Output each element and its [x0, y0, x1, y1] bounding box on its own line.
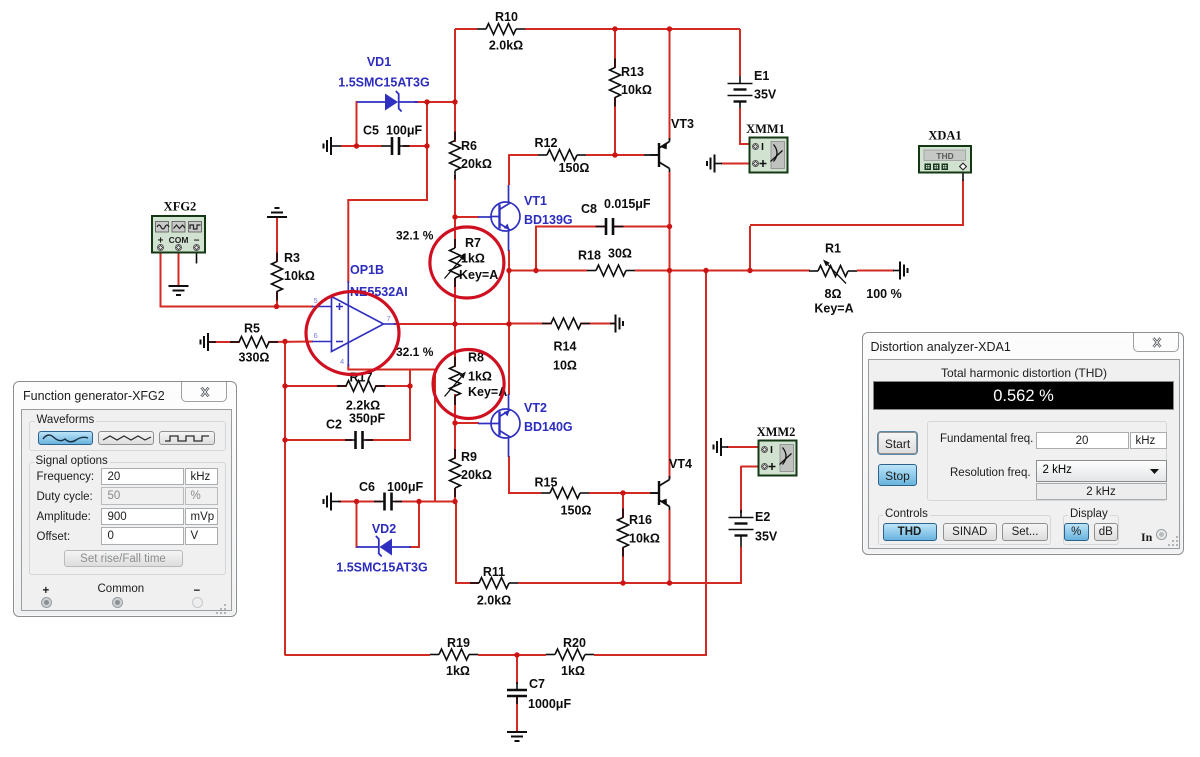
capacitor C2 [326, 412, 385, 450]
wire C6 left lead [338, 501, 381, 503]
XDA controls group [878, 515, 1051, 545]
resistor R16 [618, 509, 660, 557]
instrument XMM2 icon [757, 425, 797, 476]
FG set rise/fall button (disabled) [64, 550, 183, 568]
ground (above R3) [267, 208, 287, 217]
svg-text:4: 4 [340, 357, 344, 366]
instrument XMM1 icon [746, 122, 787, 173]
svg-text:30Ω: 30Ω [608, 247, 632, 261]
diode VD2 (TVS 1.5SMC15AT3G) [336, 522, 427, 575]
wire C8 left horizontal [536, 226, 605, 228]
wire VT2 collector down [508, 456, 510, 494]
XDA freq group [927, 421, 1167, 501]
wire R11 row right [518, 582, 741, 584]
svg-text:1.5SMC15AT3G: 1.5SMC15AT3G [336, 561, 427, 575]
XDA dB button [1094, 523, 1119, 541]
resistor R6 [450, 132, 492, 180]
svg-text:R9: R9 [461, 450, 477, 464]
svg-text:VT2: VT2 [524, 401, 547, 415]
wire op-amp pin8 vertical [347, 200, 349, 283]
wire VT3 emitter vertical to VT4 collector [669, 172, 671, 479]
svg-text:35V: 35V [755, 530, 778, 544]
wire R9 bottom to C6 node [454, 488, 456, 502]
svg-text:20kΩ: 20kΩ [461, 468, 492, 482]
annotation circle around R7 [430, 227, 504, 298]
wire R17 right vertical [409, 370, 411, 442]
svg-text:1kΩ: 1kΩ [561, 664, 585, 678]
wire R11 row to E2 corner [670, 582, 742, 584]
FG triangle button [98, 431, 154, 446]
diode VD1 (TVS 1.5SMC15AT3G) [338, 55, 429, 112]
resistor R17 [337, 371, 385, 413]
wire main output row left of R18 [509, 270, 587, 272]
svg-text:20kΩ: 20kΩ [461, 157, 492, 171]
svg-text:E2: E2 [755, 510, 770, 524]
wire VT1 base node to R7 top [454, 217, 456, 248]
annotation circle around op-amp [306, 292, 399, 375]
battery E2 35V [729, 510, 778, 547]
resistor R20 [546, 636, 594, 678]
svg-text:E1: E1 [754, 69, 769, 83]
resistor R9 [450, 449, 492, 497]
svg-text:R18: R18 [578, 249, 601, 263]
wire R12 row left [509, 154, 538, 156]
wire pin8 jog horizontal [347, 199, 428, 201]
ground (XMM1) [707, 155, 722, 173]
FG offset row [37, 531, 71, 543]
instrument XFG2 icon [152, 200, 205, 253]
wire C6 node down to R11 corner [455, 502, 457, 584]
svg-text:Key=A: Key=A [814, 302, 853, 316]
wire R8 bottom to VT2 base node [454, 394, 456, 424]
wire R12 row right / VT3 base [586, 154, 644, 156]
FG content panel [21, 409, 232, 612]
XDA title [871, 340, 1011, 354]
svg-text:R15: R15 [535, 476, 558, 490]
wire output node down to VT2 emitter [508, 324, 510, 395]
svg-text:6: 6 [314, 331, 318, 340]
wire E1 bottom to XMM1 [740, 108, 752, 145]
wire +35V top rail left of R10 [455, 28, 477, 30]
resistor R18 [578, 247, 635, 277]
wire VT2 collector row left of R15 [509, 492, 541, 494]
wire C5 row ground to branch [341, 145, 357, 147]
wire bottom row between R19 R20 [478, 654, 546, 656]
ground (C5 input) [324, 137, 342, 155]
transistor VT1 (BD139G) [478, 185, 573, 251]
FG close button [181, 382, 227, 402]
svg-text:2.0kΩ: 2.0kΩ [489, 39, 523, 53]
svg-text:35V: 35V [754, 88, 777, 102]
wire XMM2 ground link [727, 446, 761, 448]
wire XFG2 plus lead [160, 251, 162, 308]
XDA THD button [883, 523, 937, 541]
wire XFG2 minus stub [196, 251, 198, 264]
wire R12 corner vertical to VT1 collector [508, 154, 510, 185]
wire XDA1 lead stub [962, 169, 964, 181]
svg-text:VT1: VT1 [524, 194, 547, 208]
svg-text:XFG2: XFG2 [164, 200, 197, 214]
ground (R5 input) [201, 333, 217, 351]
wire XFG2 com lead [178, 251, 180, 286]
annotation label 32.1 % (R8) [396, 345, 434, 359]
XDA resize grip [1167, 535, 1181, 549]
battery E1 35V [728, 69, 777, 108]
wire left feedback vertical [284, 341, 286, 656]
svg-text:100μF: 100μF [386, 124, 423, 138]
transistor VT4 [650, 457, 692, 510]
wire R5 left lead [208, 341, 240, 343]
wire R3 top lead [276, 217, 278, 262]
XDA resolution readout [1036, 483, 1167, 500]
XDA black readout [873, 381, 1174, 410]
ground (XMM2) [714, 438, 729, 456]
wire R14 left lead [509, 323, 552, 325]
resistor R10 [477, 10, 525, 53]
wire bottom row right of R20 [594, 654, 707, 656]
svg-text:COM: COM [169, 235, 189, 245]
wire VD2 right lead [409, 546, 420, 548]
svg-text:R7: R7 [465, 236, 481, 250]
svg-text:R19: R19 [447, 636, 470, 650]
wire XDA1 jog horizontal [750, 224, 964, 226]
wire left rail down from top to VD1 node [454, 29, 456, 103]
resistor R3 [272, 251, 315, 301]
wire R5 to inverting input [268, 341, 313, 344]
svg-text:1000μF: 1000μF [528, 697, 571, 711]
transistor VT2 (BD140G) [478, 394, 573, 457]
wire emitter node to output node [508, 271, 510, 326]
svg-text:C2: C2 [326, 418, 342, 432]
wire C2 left lead [285, 439, 352, 441]
wire C8 vertical drop [535, 226, 537, 272]
svg-text:R11: R11 [483, 565, 505, 579]
capacitor C6 [359, 480, 424, 511]
wire C7 stem [516, 655, 518, 684]
FG minus terminal (inactive) [194, 585, 201, 597]
wire VD1 row [414, 101, 456, 103]
wire pin4 jog horizontal [348, 369, 435, 371]
wire R6 top lead [454, 102, 456, 142]
potentiometer R7 [445, 236, 499, 287]
svg-text:7: 7 [387, 314, 391, 323]
svg-text:150Ω: 150Ω [559, 161, 590, 175]
XDA percent button [1064, 523, 1089, 541]
resistor R19 [430, 636, 478, 678]
wire XMM2 plus link [741, 466, 761, 468]
wire output row R8 top [454, 324, 456, 367]
XDA In terminal [1141, 530, 1152, 545]
ground (XFG2 COM) [169, 286, 189, 295]
capacitor C7 [507, 677, 571, 711]
instrument XDA1 icon [919, 129, 971, 173]
wire VT2 collector row right of R15 [589, 492, 650, 494]
wire C6 right lead [395, 501, 456, 503]
XDA start button [878, 432, 917, 454]
svg-text:32.1 %: 32.1 % [396, 229, 434, 243]
wire VT4 base lead [623, 492, 650, 494]
FG amplitude row [37, 511, 91, 523]
svg-text:C8: C8 [581, 202, 597, 216]
svg-text:100 %: 100 % [866, 287, 901, 301]
wire pin4 vertical [347, 364, 349, 371]
wire R14 right lead [580, 323, 616, 325]
wire VD2 left vertical [356, 501, 358, 548]
FG sine button (selected) [38, 431, 93, 446]
svg-text:10Ω: 10Ω [553, 359, 577, 373]
wire VT2 base red part [455, 422, 479, 424]
svg-text:10kΩ: 10kΩ [284, 269, 315, 283]
svg-text:2.2kΩ: 2.2kΩ [346, 399, 380, 413]
XDA THD caption [869, 366, 1179, 380]
wire VT1 base red part [455, 216, 479, 218]
svg-text:C6: C6 [359, 480, 375, 494]
svg-text:0.015μF: 0.015μF [604, 197, 651, 211]
svg-text:R10: R10 [495, 10, 518, 24]
XDA content panel [868, 359, 1180, 549]
resistor R14 [542, 318, 590, 373]
wire bottom row left of R19 [285, 654, 430, 656]
wire VT1 emitter red part [508, 250, 510, 272]
wire C2 right lead [366, 439, 410, 441]
wire XMM2 to E2 vertical [740, 466, 742, 513]
wire R16 top lead [622, 493, 624, 518]
wire R3 bottom lead [276, 291, 278, 308]
wire R17 right lead [375, 385, 410, 387]
svg-text:C5: C5 [363, 124, 379, 138]
svg-text:2.0kΩ: 2.0kΩ [477, 594, 511, 608]
wire VT4 emitter vertical [669, 510, 671, 584]
dialog: Distortion analyzer-XDA1 [862, 332, 1184, 555]
wire E2 bottom vertical [740, 547, 742, 584]
svg-text:BD140G: BD140G [524, 420, 573, 434]
resistor R12 [535, 136, 590, 175]
wire XMM1 ground link [721, 163, 752, 165]
FG plus terminal [43, 585, 50, 597]
XDA close button [1133, 333, 1179, 352]
wire R1 left lead [750, 270, 810, 272]
FG signal options group [29, 462, 226, 575]
wire C5 row right [403, 145, 428, 147]
wire VT3 collector vertical [669, 29, 671, 140]
FG waveforms group [29, 421, 226, 451]
transistor VT3 [644, 117, 694, 172]
svg-text:R1: R1 [825, 242, 841, 256]
XDA Set button [1002, 523, 1048, 541]
wire XDA1 lead [962, 180, 964, 226]
svg-text:R20: R20 [563, 636, 586, 650]
wire output to bottom-loop vertical [705, 271, 707, 656]
svg-text:32.1 %: 32.1 % [396, 345, 434, 359]
svg-text:C7: C7 [529, 677, 545, 691]
svg-text:R6: R6 [461, 139, 477, 153]
wire R7 bottom to output row [454, 278, 456, 325]
wire VT2 base node to R9 top [454, 423, 456, 459]
FG duty cycle row [37, 491, 93, 503]
wire pin4 drop to C6 row [434, 370, 436, 503]
svg-text:XMM2: XMM2 [757, 425, 796, 439]
svg-text:1kΩ: 1kΩ [468, 370, 492, 384]
svg-text:R13: R13 [621, 65, 644, 79]
wire R1 right lead [857, 270, 894, 272]
svg-text:R5: R5 [244, 322, 260, 336]
resistor R13 [610, 59, 652, 107]
wire R11 row left [455, 582, 470, 584]
wire C7 bottom lead [516, 697, 518, 732]
wire R6 lead bottom to VT1 base node [454, 175, 456, 218]
svg-text:350pF: 350pF [349, 412, 385, 426]
svg-text:150Ω: 150Ω [561, 504, 592, 518]
wire main output row right of R18 [635, 270, 804, 272]
svg-text:1kΩ: 1kΩ [446, 664, 470, 678]
svg-text:XMM1: XMM1 [746, 122, 785, 136]
wire output row to emitter node [455, 323, 510, 325]
ground (C6 input) [324, 493, 342, 511]
wire C8 right horizontal [614, 226, 670, 228]
svg-text:THD: THD [936, 151, 953, 161]
potentiometer R8 [445, 351, 508, 406]
op-amp U1 OP1B NE5532AI [312, 263, 408, 367]
svg-text:5: 5 [314, 296, 318, 305]
svg-text:R16: R16 [629, 513, 652, 527]
wire op-amp output lead [394, 323, 456, 325]
wire R17 left lead [285, 385, 347, 387]
annotation label 32.1 % (R7) [396, 229, 434, 243]
wire XDA1 tap vertical [749, 226, 751, 271]
svg-text:OP1B: OP1B [350, 263, 384, 277]
svg-text:R12: R12 [535, 136, 558, 150]
ground (R14) [610, 315, 623, 333]
svg-text:10kΩ: 10kΩ [629, 532, 660, 546]
capacitor C5 [363, 124, 423, 156]
svg-text:Key=A: Key=A [459, 268, 498, 282]
potentiometer R1 [809, 242, 902, 316]
wire E1 top [739, 29, 741, 76]
capacitor C8 [581, 197, 651, 235]
wire C5 right vertical [426, 101, 428, 201]
XDA stop button [878, 464, 917, 486]
svg-text:R14: R14 [554, 340, 577, 354]
svg-text:1.5SMC15AT3G: 1.5SMC15AT3G [338, 76, 429, 90]
wire VD1 anode branch [356, 101, 358, 147]
wire R11 left lead on row [456, 582, 479, 584]
annotation circle around R8 [433, 350, 504, 419]
FG common terminal [98, 583, 145, 595]
XDA resolution freq row [950, 467, 1031, 479]
svg-text:R3: R3 [284, 251, 300, 265]
svg-text:BD139G: BD139G [524, 213, 573, 227]
wire +35V top rail right of R10 [525, 28, 740, 30]
svg-text:8Ω: 8Ω [825, 287, 842, 301]
svg-text:1kΩ: 1kΩ [461, 252, 485, 266]
XDA display group [1063, 515, 1119, 545]
FG resize grip [215, 603, 229, 617]
svg-text:XDA1: XDA1 [928, 129, 961, 143]
dialog: Function generator-XFG2 [13, 381, 237, 617]
wire R16 bottom lead [622, 547, 624, 584]
wire R13 top lead [614, 29, 616, 68]
XDA fundamental freq row [940, 433, 1033, 445]
svg-text:330Ω: 330Ω [239, 351, 270, 365]
FG square button [159, 431, 215, 446]
wire R13 bottom lead [614, 97, 616, 156]
svg-text:VT3: VT3 [671, 117, 694, 131]
resistor R5 [230, 322, 278, 365]
wire XFG2 plus row to op-amp + [161, 306, 314, 308]
ground (below C7) [507, 732, 527, 741]
ground (R1 output) [893, 262, 908, 280]
FG frequency row [37, 449, 40, 461]
svg-text:100μF: 100μF [387, 480, 424, 494]
wire VD2 right vertical [418, 501, 420, 548]
svg-text:VT4: VT4 [669, 457, 692, 471]
svg-text:10kΩ: 10kΩ [621, 83, 652, 97]
svg-text:VD2: VD2 [372, 522, 396, 536]
svg-text:VD1: VD1 [367, 55, 391, 69]
resistor R15 [535, 476, 592, 518]
resistor R11 [470, 565, 518, 608]
wire C5 row left [357, 145, 383, 147]
FG title [23, 389, 165, 403]
XDA SINAD button [943, 523, 998, 541]
